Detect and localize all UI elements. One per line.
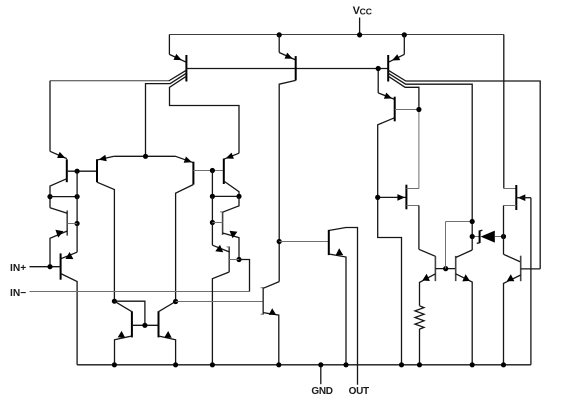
wire Q18-Q19 base link (435, 266, 455, 271)
wire Q2 collector (279, 80, 296, 281)
wire Q12 collector (212, 272, 229, 365)
wire Q3 collector 3 (388, 76, 419, 188)
wire base column left (75, 171, 80, 252)
transistor Q6 PNP (97, 155, 114, 182)
wire Q5 collector (50, 179, 67, 208)
transistor Q2 PNP (279, 35, 296, 81)
wire Q15 base (176, 301, 264, 303)
wire base up-link (446, 219, 475, 269)
transistor Q14 NPN (159, 299, 179, 365)
wire base-collector tie (50, 194, 80, 199)
wire Q3 collector 2 (388, 73, 472, 250)
wire Q1 collector 3 (170, 76, 240, 159)
wire Q6-Q7 emitter rail (114, 154, 175, 159)
transistor Q5 arrow (57, 152, 65, 158)
terminal GND lead (320, 365, 322, 384)
transistor Q17 PNP (397, 185, 419, 210)
wire Q1 base rail (186, 68, 388, 70)
svg-text:IN+: IN+ (10, 263, 26, 274)
node Q4 base junction (416, 107, 421, 112)
wire VCC right drop (503, 35, 505, 189)
wire Q1 collector 1 (50, 70, 186, 158)
wire Q7-Q8 base link (193, 168, 223, 173)
svg-text:GND: GND (311, 386, 332, 397)
transistor Q8 PNP (224, 153, 234, 184)
wire Q20 emitter drop (530, 198, 532, 365)
node Q4 emitter junction (376, 66, 381, 71)
transistor Q5 PNP (50, 151, 67, 182)
wire Q17 emitter (375, 195, 406, 200)
wire Q17 collector (419, 206, 436, 257)
wire VCC rail (169, 34, 504, 36)
diode D1 (470, 230, 507, 243)
wire Q20 collector drop (503, 206, 505, 255)
wire Q8 collector (224, 181, 239, 196)
svg-text:OUT: OUT (349, 386, 369, 397)
resistor R1 (415, 306, 424, 365)
label VCC (353, 5, 372, 17)
transistor Q12 NPN (212, 245, 239, 272)
wire mirror base link (132, 323, 159, 328)
node VCC junction dots (277, 32, 407, 37)
wire Q7 collector (176, 185, 194, 302)
terminal IN+ lead (30, 264, 61, 269)
transistor Q21 NPN (504, 254, 541, 364)
svg-text:IN−: IN− (10, 288, 26, 299)
transistor Q20 PNP (504, 185, 531, 210)
wire Q6 collector (97, 182, 114, 301)
transistor Q3 multi-collector PNP (388, 35, 404, 82)
wire mirror input (112, 299, 145, 326)
svg-text:CC: CC (360, 7, 372, 17)
ground rail (77, 364, 531, 366)
wire Q4 base stub (395, 109, 419, 111)
ground rail junction dots (112, 362, 506, 367)
wire Q16 base (279, 241, 329, 243)
transistor Q16 NPN (329, 228, 358, 385)
transistor Q9 NPN (50, 208, 77, 267)
VCC terminal lead (359, 18, 361, 35)
transistor Q18 NPN (420, 256, 436, 306)
transistor Q13 NPN (114, 301, 131, 365)
wire base column center (210, 171, 242, 246)
wire Q10 collector (61, 274, 78, 365)
terminal IN- wire (30, 260, 250, 292)
wire Q1 collector 2 (146, 73, 187, 156)
transistor Q4 PNP (378, 69, 395, 122)
transistor Q19 NPN (456, 250, 473, 365)
transistor Q1 multi-collector PNP (169, 35, 186, 82)
node Q5 collector junction (47, 194, 52, 199)
transistor Q11 NPN (212, 196, 241, 262)
wire Q5-Q6 base link (67, 169, 97, 174)
transistor Q7 PNP (176, 156, 194, 184)
node compensation junction (277, 239, 282, 244)
transistor Q10 PNP (61, 252, 78, 280)
transistor Q15 NPN (261, 282, 280, 365)
wire Q3 collector 1 (388, 70, 540, 269)
wire Q4 collector (378, 118, 402, 365)
